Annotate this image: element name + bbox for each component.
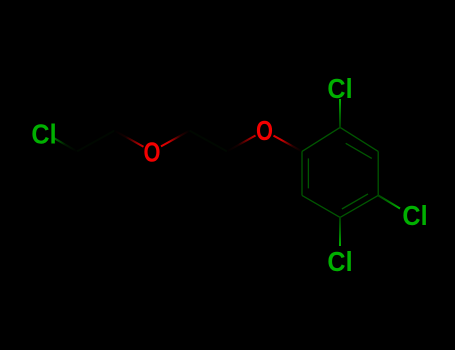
wire: bond O1-C3 xyxy=(161,131,190,147)
svg-text:O: O xyxy=(144,137,161,168)
wire: bond ring-Cl top xyxy=(339,99,341,127)
benzene ring: edge bottom-right (double) xyxy=(340,195,378,217)
wire: bond ring-Cl bottom xyxy=(339,217,341,246)
svg-text:Cl: Cl xyxy=(402,200,427,232)
wire: bond C4-O2 xyxy=(227,136,256,152)
wire: bond C3-C4 (carbon, nearly invisible) xyxy=(190,131,228,152)
svg-text:Cl: Cl xyxy=(31,118,56,150)
benzene ring: edge top-right (double) xyxy=(340,127,378,151)
svg-text:Cl: Cl xyxy=(327,73,352,105)
svg-text:O: O xyxy=(256,116,273,147)
benzene ring: edge right xyxy=(377,151,379,195)
benzene ring: edge bottom-left xyxy=(302,195,340,217)
svg-text:Cl: Cl xyxy=(327,246,352,278)
wire: bond C2-O1 xyxy=(115,131,144,147)
wire: bond Cl-C1 xyxy=(52,137,77,151)
wire: bond O2-ring xyxy=(274,136,303,152)
benzene ring: edge top-left xyxy=(302,127,340,151)
wire: bond C1-C2 (carbon, nearly invisible) xyxy=(77,131,115,152)
wire: bond ring-Cl right xyxy=(378,195,400,208)
benzene ring: edge left (double) xyxy=(301,151,303,195)
